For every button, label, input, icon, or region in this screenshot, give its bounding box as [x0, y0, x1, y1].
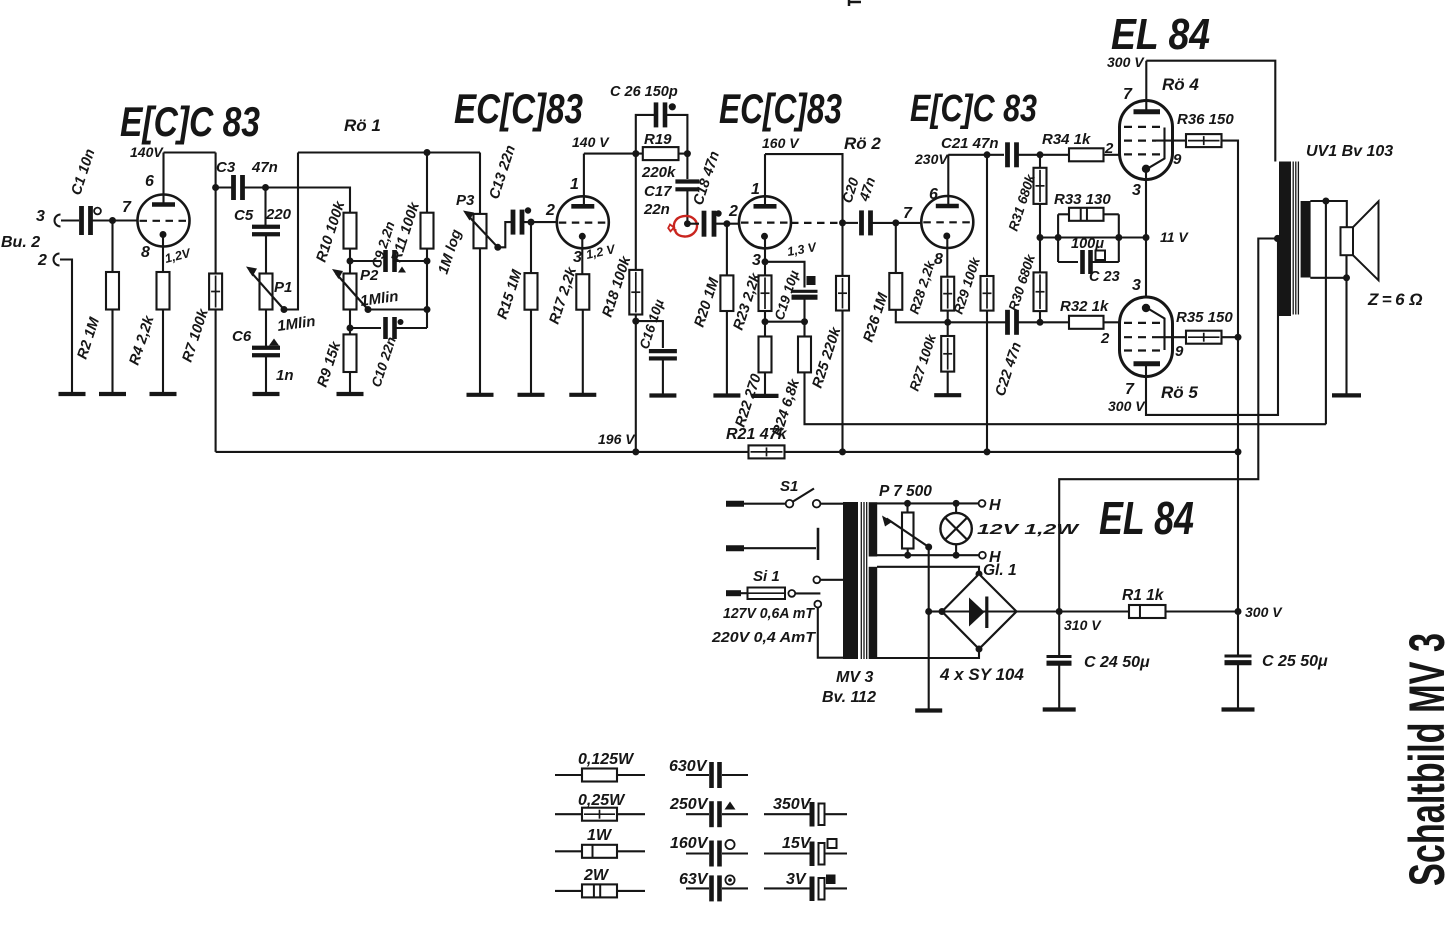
- wire HT bottom to bridge: [877, 649, 979, 658]
- node C19/R24: [801, 318, 808, 325]
- svg-text:11 V: 11 V: [1160, 229, 1189, 245]
- pentode EL84 Rö5: [1120, 297, 1173, 377]
- wire speaker to ground: [1345, 278, 1347, 396]
- svg-text:P2: P2: [360, 267, 379, 284]
- wire node to C10: [350, 327, 381, 329]
- wire plate Rö4 to rail: [1145, 61, 1147, 112]
- svg-text:R34 1k: R34 1k: [1042, 131, 1091, 148]
- rectifier bridge Gl.1: [942, 574, 1017, 649]
- triode EC[C]83 system 1 (second stage): [557, 196, 609, 248]
- node P7 wiper: [925, 544, 932, 551]
- wire R29 column: [986, 155, 988, 276]
- wire R36 to 300V line: [1222, 141, 1239, 612]
- wire bridge plus to 310V: [1017, 610, 1060, 612]
- wire node to C3: [216, 186, 232, 188]
- node bridge DC minus: [939, 608, 946, 615]
- wire column down to C10: [426, 310, 428, 329]
- scan artifact at top edge: [849, 1, 861, 4]
- svg-text:Schaltbild MV 3: Schaltbild MV 3: [1399, 633, 1454, 886]
- node R28/R27/line: [944, 319, 951, 326]
- input jack Bu.2 pin 2: [54, 254, 60, 266]
- legend electrolytic 15V: [764, 852, 810, 854]
- wire cathode branch to C19: [765, 262, 805, 288]
- potentiometer P1 1Mlin: [260, 274, 273, 310]
- voltage selector plug contact: [788, 590, 795, 597]
- svg-text:R1 1k: R1 1k: [1122, 587, 1165, 604]
- node C3/C5: [262, 184, 269, 191]
- resistor R28 2,2k: [941, 277, 954, 311]
- wire R25 to 196V rail: [841, 311, 843, 452]
- svg-text:Rö 1: Rö 1: [344, 116, 381, 135]
- resistor R18 100k: [629, 270, 642, 315]
- wire P3 to ground: [479, 248, 481, 394]
- wire node to tube grid: [113, 219, 139, 221]
- wire R35 to 300V line: [1222, 336, 1239, 338]
- ground (C25): [1222, 707, 1255, 711]
- wire C22 to R32: [1019, 321, 1070, 323]
- wire R20 to ground: [726, 311, 728, 396]
- wire R10 to node: [349, 249, 351, 274]
- svg-text:MV 3: MV 3: [836, 669, 873, 686]
- svg-text:220V 0,4 AmT: 220V 0,4 AmT: [711, 629, 817, 646]
- resistor R34 1k: [1069, 148, 1104, 161]
- wire R17 to ground: [582, 310, 584, 395]
- svg-text:220k: 220k: [641, 164, 676, 181]
- svg-text:EC[C]83: EC[C]83: [454, 85, 583, 132]
- svg-text:C3: C3: [216, 159, 236, 176]
- node P1 wiper: [281, 306, 288, 313]
- wire P1 to C6: [265, 310, 267, 347]
- resistor R17 2,2k: [576, 274, 589, 310]
- node C18/R20: [723, 220, 730, 227]
- wire hum-balance to ground: [928, 547, 930, 711]
- legend marker filled square 3V: [826, 875, 836, 885]
- wire C24 to ground: [1058, 666, 1060, 710]
- wire C20 to grid node: [873, 222, 896, 224]
- wire node to tube4 grid: [896, 222, 923, 224]
- wire feedback line down: [1325, 201, 1327, 424]
- ground (C16): [649, 393, 676, 397]
- wire fuse to plug: [741, 592, 748, 594]
- outer-foil dot C13: [525, 207, 531, 213]
- svg-text:2: 2: [37, 252, 47, 269]
- svg-text:250V: 250V: [669, 796, 709, 813]
- node cathode/C19 branch: [762, 258, 769, 265]
- wire node down to R7: [215, 188, 217, 274]
- ground (R4): [150, 392, 177, 396]
- capacitor C13 22n: [511, 210, 516, 235]
- input jack Bu.2 pin 3: [55, 215, 61, 227]
- svg-text:Si 1: Si 1: [753, 568, 780, 585]
- wire C3 to C5 node: [245, 186, 266, 188]
- capacitor C24 50µ: [1047, 655, 1072, 658]
- svg-text:15V: 15V: [782, 835, 812, 852]
- node feedback tap: [1322, 198, 1329, 205]
- wire R33 top left: [1058, 213, 1069, 215]
- pentode EL84 Rö4: [1120, 101, 1173, 180]
- g3 dashed Rö5: [1124, 349, 1164, 351]
- wire R26 column: [895, 223, 897, 273]
- svg-text:4 x SY 104: 4 x SY 104: [939, 665, 1024, 684]
- wire 230V rail: [948, 154, 1004, 156]
- node bridge AC bottom: [976, 646, 983, 653]
- ground (R22): [752, 394, 779, 398]
- wire plate Rö5 to transformer: [1146, 240, 1278, 415]
- legend capacitor 630V: [686, 774, 709, 776]
- wire mid node to 11V node: [1040, 236, 1146, 238]
- wire 196V rail right: [785, 451, 1239, 453]
- wire plate to 230V rail: [947, 155, 949, 206]
- wire C9 to R11 column: [397, 260, 428, 262]
- svg-text:C17: C17: [644, 183, 672, 200]
- resistor R36 150: [1186, 134, 1222, 147]
- svg-text:P3: P3: [456, 192, 475, 209]
- ground (R17): [569, 393, 596, 397]
- wire C16 to ground: [662, 359, 664, 396]
- legend capacitor 250V: [686, 813, 709, 815]
- node wiper/C10 column: [424, 306, 431, 313]
- node R33 loop right: [1115, 234, 1122, 241]
- legend marker dotted circle 63V: [725, 875, 734, 884]
- wire heater bottom: [877, 554, 979, 556]
- svg-text:140 V: 140 V: [572, 134, 610, 150]
- anode bar Rö5: [1134, 361, 1161, 366]
- ground (P3): [467, 393, 494, 397]
- svg-text:2: 2: [545, 202, 555, 219]
- resistor R33 130: [1069, 208, 1104, 221]
- node C13/R15: [528, 219, 535, 226]
- svg-text:E[C]C 83: E[C]C 83: [910, 88, 1037, 130]
- svg-text:9: 9: [1175, 343, 1184, 360]
- capacitor C17 22n: [675, 179, 699, 183]
- legend marker triangle 250V: [725, 802, 736, 810]
- svg-text:P1: P1: [274, 279, 292, 296]
- wire node to R20: [726, 224, 728, 276]
- node C3/R7: [212, 184, 219, 191]
- svg-text:Bv. 112: Bv. 112: [822, 689, 876, 706]
- node plate/C20/R25: [839, 219, 846, 226]
- g1 dashed Rö4: [1124, 153, 1164, 155]
- svg-text:Rö 4: Rö 4: [1162, 75, 1199, 94]
- capacitor C25 50µ: [1225, 655, 1252, 658]
- node R19/C26/C17: [684, 150, 691, 157]
- red annotation circle: [674, 216, 697, 237]
- svg-text:3: 3: [1132, 182, 1141, 199]
- svg-text:1n: 1n: [276, 367, 294, 384]
- node lamp top: [953, 500, 960, 507]
- svg-text:1: 1: [751, 181, 760, 198]
- wire plate rail to transformer: [1146, 61, 1275, 162]
- node C20/R26: [892, 219, 899, 226]
- node R35/300V line: [1235, 334, 1242, 341]
- resistor R27 100k: [941, 336, 954, 372]
- tap contact 127V: [813, 576, 820, 583]
- wire C25 to ground: [1237, 665, 1239, 710]
- resistor R31 680k: [1034, 168, 1047, 204]
- resistor R26 1M: [889, 273, 902, 310]
- terminator plate: [817, 528, 820, 560]
- triode Rö2 (phase splitter): [921, 196, 973, 248]
- svg-text:2W: 2W: [583, 867, 610, 884]
- wire R23 to R22: [764, 311, 766, 337]
- svg-text:UV1 Bv 103: UV1 Bv 103: [1306, 143, 1393, 160]
- wire C19 to node: [803, 300, 805, 337]
- capacitor C26 150p: [654, 102, 659, 127]
- wire C10 to column: [397, 327, 428, 329]
- wire C26 left leg: [636, 115, 654, 154]
- g3-cathode link Rö4: [1148, 128, 1165, 169]
- wire R30 column: [1039, 238, 1041, 273]
- wire rail down to C3 node: [215, 153, 217, 188]
- heater output contact H top: [979, 500, 986, 507]
- svg-text:7: 7: [122, 199, 132, 216]
- svg-text:C 25 50μ: C 25 50μ: [1262, 653, 1328, 670]
- wire C23 bottom right: [1093, 261, 1119, 263]
- transformer MV3 heater winding: [869, 502, 878, 556]
- wire bridge minus to hum line: [929, 610, 942, 612]
- legend resistor 0,125W: [555, 774, 582, 776]
- svg-text:1W: 1W: [587, 827, 613, 844]
- svg-text:C 24 50μ: C 24 50μ: [1084, 654, 1150, 671]
- speaker voice coil: [1341, 227, 1354, 255]
- node P2 wiper: [365, 306, 372, 313]
- cathode dot Rö5: [1142, 304, 1150, 312]
- ground (C6): [253, 392, 280, 396]
- wire R29 to 196V rail: [986, 311, 988, 452]
- node C26 right: [669, 103, 676, 110]
- transformer UV1 secondary winding: [1301, 201, 1311, 278]
- dashed grid extension: [791, 222, 838, 224]
- node C21/R31/R34: [1037, 151, 1044, 158]
- speaker cone: [1353, 201, 1379, 280]
- wire R33 top right: [1104, 213, 1119, 215]
- resistor R10 100k: [344, 213, 357, 249]
- node rail/R11: [424, 149, 431, 156]
- wiper arrow P2: [336, 274, 368, 310]
- transformer MV3 core laminations: [860, 502, 862, 659]
- wire 127V tap: [820, 579, 843, 581]
- svg-text:12V 1,2W: 12V 1,2W: [977, 521, 1081, 538]
- svg-text:140V: 140V: [130, 144, 164, 160]
- svg-text:R33 130: R33 130: [1054, 191, 1111, 208]
- svg-text:7: 7: [1125, 381, 1135, 398]
- wire lamp bottom lead: [955, 544, 957, 555]
- svg-text:C 26 150p: C 26 150p: [610, 84, 678, 100]
- wire wiper P2 to R11 column: [368, 308, 427, 310]
- wire 300V to C25: [1237, 612, 1239, 655]
- svg-text:1: 1: [570, 176, 579, 193]
- node R10/C9/P2: [347, 258, 354, 265]
- wire R27 to ground: [947, 372, 949, 396]
- node speaker ground tap: [1343, 274, 1350, 281]
- legend capacitor 160V: [686, 852, 709, 854]
- g2 dashed Rö4: [1124, 140, 1156, 142]
- node 300V: [1235, 608, 1242, 615]
- wire rail to R11: [426, 153, 428, 213]
- svg-text:2: 2: [1100, 330, 1110, 347]
- node R25/196V rail: [839, 448, 846, 455]
- wire R25 column: [841, 275, 843, 277]
- wire g2 Rö5 to R35: [1156, 336, 1186, 338]
- wire 310V to R1: [1059, 610, 1129, 612]
- svg-text:R32 1k: R32 1k: [1060, 298, 1109, 315]
- svg-text:8: 8: [141, 244, 150, 261]
- resistor R20 1M: [720, 275, 733, 311]
- capacitor C23 100µ: [1080, 250, 1085, 274]
- svg-text:300 V: 300 V: [1107, 54, 1145, 70]
- svg-text:R21 47k: R21 47k: [726, 426, 788, 443]
- wire 140V rail: [164, 151, 216, 153]
- wire node to C20: [843, 222, 859, 224]
- capacitor C10 22n: [383, 317, 388, 339]
- wire C21 to R31 node: [1019, 154, 1070, 156]
- svg-text:Gl. 1: Gl. 1: [983, 562, 1017, 579]
- wire 220V tap: [818, 608, 843, 658]
- mains terminal 2: [726, 545, 744, 551]
- resistor R24 6,8k: [798, 337, 811, 373]
- wire wiper jog to C13: [498, 222, 512, 247]
- capacitor C1 10n: [79, 206, 84, 235]
- wire cathode to R28: [946, 234, 948, 277]
- legend capacitor 63V: [686, 887, 709, 889]
- transformer MV3 HT winding: [869, 567, 878, 659]
- wire R1 to 300V: [1166, 610, 1239, 612]
- wire R19 to right node: [679, 153, 688, 155]
- ground (input 2): [59, 392, 86, 396]
- svg-text:220: 220: [265, 206, 292, 223]
- ground (C24): [1043, 707, 1076, 711]
- node R31/R30/mid wire: [1037, 234, 1044, 241]
- resistor R22 270: [759, 337, 772, 373]
- wire tone rail: [298, 151, 480, 153]
- wiper arrow P7: [887, 519, 929, 548]
- wire cathode to node: [764, 237, 766, 276]
- resistor R7 100k: [209, 274, 222, 310]
- svg-text:C21 47n: C21 47n: [941, 135, 999, 152]
- svg-text:7: 7: [1123, 86, 1133, 103]
- wire C17 to node: [686, 189, 688, 223]
- ground (hum balance): [915, 708, 942, 712]
- wire terminal 2 to plate: [744, 547, 816, 549]
- wire 310V to C24: [1058, 612, 1060, 656]
- marker triangle C6: [269, 339, 279, 346]
- wire lamp top lead: [955, 503, 957, 513]
- potentiometer P2 1Mlin: [344, 274, 357, 310]
- node 11V: [1143, 234, 1150, 241]
- resistor R29 100k: [981, 276, 994, 311]
- wire node to R23 node: [765, 321, 805, 323]
- svg-text:E[C]C 83: E[C]C 83: [120, 98, 260, 145]
- wire 196V rail left: [216, 451, 749, 453]
- diode symbol: [969, 598, 985, 627]
- center tap node: [1274, 235, 1281, 242]
- wire R34 to Rö4 grid: [1104, 154, 1125, 156]
- outer-foil dot C18: [715, 210, 721, 216]
- node C22/R30: [1037, 319, 1044, 326]
- potentiometer P7 500: [902, 513, 914, 549]
- wire R7 to 196V rail: [215, 310, 217, 452]
- svg-text:6: 6: [929, 186, 938, 203]
- g1 dashed Rö5: [1124, 322, 1164, 324]
- resistor R25 220k: [836, 276, 849, 311]
- legend resistor 2W: [555, 890, 582, 892]
- node C9/R11: [424, 258, 431, 265]
- wire 140V rail (stage2): [584, 153, 643, 155]
- svg-text:3: 3: [752, 252, 761, 269]
- wire heater top: [877, 502, 979, 504]
- node C17/C18 (marked): [684, 220, 691, 227]
- svg-text:P 7 500: P 7 500: [879, 483, 932, 500]
- svg-text:R35 150: R35 150: [1176, 309, 1233, 326]
- marker open square C23: [1096, 251, 1106, 261]
- svg-text:EL 84: EL 84: [1099, 492, 1194, 544]
- svg-text:Rö 5: Rö 5: [1161, 383, 1198, 402]
- wire input 2 to ground: [60, 260, 72, 395]
- mains terminal 1: [726, 501, 744, 507]
- wire R24 to feedback line: [805, 372, 1326, 424]
- node lamp bottom: [953, 552, 960, 559]
- svg-text:160V: 160V: [670, 835, 709, 852]
- node R18 column/rail: [632, 448, 639, 455]
- capacitor C9 2,2n: [383, 250, 388, 272]
- outer-foil circle C1: [94, 208, 101, 215]
- wire cathode Rö1a to R4: [162, 235, 164, 273]
- capacitor C20 47n: [859, 210, 864, 235]
- resistor R35 150: [1186, 331, 1222, 344]
- resistor R30 680k: [1034, 272, 1047, 311]
- resistor R19 220k: [643, 147, 679, 160]
- svg-text:47n: 47n: [251, 159, 278, 176]
- wire R32 to Rö5 grid: [1104, 321, 1125, 323]
- wire R31 to mid node: [1039, 204, 1041, 238]
- wire g2 Rö4 to R36: [1156, 140, 1186, 142]
- svg-text:0,125W: 0,125W: [578, 751, 635, 768]
- capacitor C5 220: [252, 225, 280, 229]
- wire S1 to primary: [821, 503, 844, 505]
- tap contact 220V: [814, 601, 821, 608]
- svg-text:100μ: 100μ: [1071, 236, 1104, 252]
- legend electrolytic 3V: [764, 887, 810, 889]
- wire plate to rail: [583, 154, 585, 206]
- svg-text:160 V: 160 V: [762, 135, 800, 151]
- svg-text:310 V: 310 V: [1064, 617, 1102, 633]
- pilot lamp 12V 1,2W: [940, 513, 971, 544]
- svg-text:0,25W: 0,25W: [578, 792, 626, 809]
- legend electrolytic 350V: [764, 813, 810, 815]
- bridge internal wire: [942, 611, 1017, 613]
- capacitor C16 10µ: [649, 349, 677, 353]
- resistor R21 47k: [749, 445, 785, 458]
- wire R2 to ground: [111, 310, 113, 395]
- wire R33 loop left: [1057, 214, 1059, 262]
- cathode dot Rö4: [1142, 165, 1150, 173]
- svg-text:Bu. 2: Bu. 2: [1, 234, 40, 251]
- svg-text:2: 2: [1104, 140, 1114, 157]
- transformer UV1 primary winding: [1279, 162, 1291, 317]
- wire rail down to P3: [479, 153, 481, 214]
- legend marker open square 15V: [828, 839, 837, 848]
- wire node to R2: [111, 221, 113, 273]
- svg-text:300 V: 300 V: [1108, 398, 1146, 414]
- capacitor C18 47n: [702, 211, 707, 237]
- ground (R2): [99, 392, 126, 396]
- svg-text:630V: 630V: [669, 758, 708, 775]
- wire P7 bottom lead: [907, 549, 909, 556]
- svg-text:Z = 6 Ω: Z = 6 Ω: [1367, 290, 1423, 309]
- svg-text:C5: C5: [234, 207, 254, 224]
- wire R9 to ground: [349, 372, 351, 394]
- wiper arrow P1: [250, 271, 284, 310]
